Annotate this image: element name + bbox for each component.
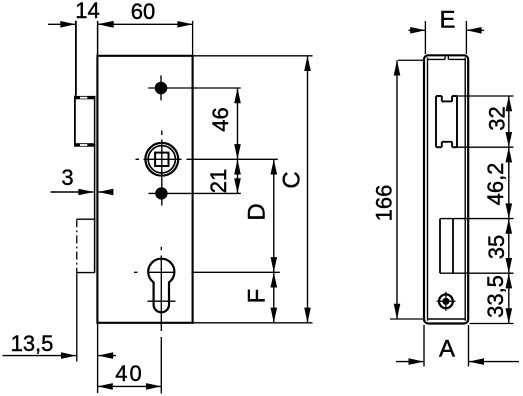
- upper slot in faceplate: [435, 96, 437, 147]
- screw hole: [439, 294, 453, 308]
- dimension 3 arrows: [51, 191, 94, 193]
- svg-text:46: 46: [208, 107, 233, 131]
- extension line for 13,5: [76, 273, 78, 362]
- latch opening bottom bar: [75, 143, 95, 147]
- lower slot top extension: [440, 218, 514, 220]
- case bottom extension line: [193, 322, 313, 324]
- dimension 32: [508, 96, 510, 147]
- spindle hub inner circle: [148, 146, 175, 173]
- extension line right of 60: [192, 21, 194, 56]
- dimension D: [273, 159, 275, 272]
- lower hidden box dash-dot left edge: [76, 219, 78, 272]
- dimension 60 line with inside arrows: [98, 23, 193, 25]
- svg-text:35: 35: [484, 235, 509, 259]
- svg-text:60: 60: [131, 0, 155, 24]
- latch opening inner right line / plate front line: [94, 96, 96, 273]
- lower slot left edge: [439, 219, 441, 274]
- svg-text:D: D: [244, 203, 271, 220]
- dimension 33,5: [508, 273, 510, 323]
- dimension E arrows: [409, 29, 426, 31]
- dimension 46: [237, 88, 239, 159]
- keyhole horizontal centerline: [134, 271, 138, 273]
- dimension A arrows: [396, 361, 424, 363]
- lower box bottom edge: [77, 272, 95, 274]
- spindle vertical centerline: [161, 131, 163, 136]
- case top extension line: [193, 55, 313, 57]
- svg-text:166: 166: [372, 185, 397, 222]
- svg-text:46,2: 46,2: [483, 163, 508, 206]
- spindle horizontal centerline: [136, 158, 140, 160]
- lock case outline: [97, 56, 192, 323]
- vertical centerline through keyhole: [160, 247, 162, 251]
- dimension 13,5 arrows: [3, 355, 77, 357]
- faceplate inner left line: [427, 58, 429, 321]
- dimension 14 line with outside arrows: [48, 23, 76, 25]
- spindle square: [155, 153, 168, 166]
- dimension 46,2: [508, 147, 510, 218]
- svg-text:A: A: [439, 336, 455, 363]
- lower slot inner line: [452, 219, 454, 274]
- extension line slot bottom: [457, 146, 514, 148]
- spindle hub outer circle: [145, 143, 178, 176]
- svg-text:21: 21: [206, 169, 231, 193]
- case front extension below case: [97, 323, 99, 393]
- svg-text:E: E: [439, 7, 455, 34]
- lower box top edge: [77, 218, 96, 220]
- dimension F: [273, 272, 275, 323]
- extension line slot top: [457, 95, 514, 97]
- svg-text:F: F: [244, 289, 271, 304]
- svg-text:33,5: 33,5: [483, 275, 508, 318]
- E extension lines: [424, 21, 426, 54]
- svg-text:3: 3: [61, 165, 73, 190]
- A extension lines: [423, 325, 425, 367]
- lower slot bottom extension: [440, 272, 514, 274]
- svg-text:C: C: [279, 171, 306, 188]
- faceplate strip left edge / extension line: [75, 21, 77, 96]
- lower hole: [155, 187, 167, 199]
- dimension C: [307, 56, 309, 323]
- faceplate outer outline: [424, 55, 468, 323]
- faceplate inner right line: [464, 58, 466, 321]
- faceplate bottom extension: [470, 323, 514, 325]
- faceplate front line above case: [97, 21, 99, 56]
- latch opening left edge: [74, 96, 76, 147]
- dimension 21: [237, 159, 239, 193]
- faceplate inner bottom line: [428, 318, 466, 320]
- svg-text:13,5: 13,5: [11, 331, 54, 356]
- keyhole chord line: [148, 300, 176, 302]
- svg-text:32: 32: [485, 106, 510, 130]
- latch opening top bar: [75, 96, 95, 99]
- top hole: [155, 82, 168, 95]
- euro cylinder keyhole: [148, 259, 174, 313]
- dimension 35: [508, 219, 510, 274]
- dimension 166: [396, 60, 398, 319]
- faceplate inner top line with notch: [428, 58, 446, 60]
- svg-text:40: 40: [115, 361, 143, 386]
- dimension 40: [98, 385, 162, 387]
- svg-text:14: 14: [75, 0, 99, 23]
